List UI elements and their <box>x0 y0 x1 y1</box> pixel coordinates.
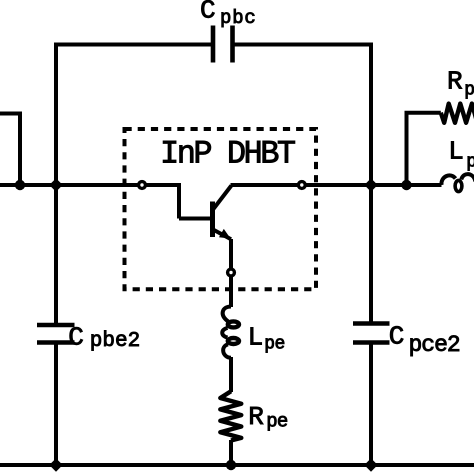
wire: Lpe to Rpe <box>229 357 233 392</box>
wire: left vertical branch upper segment (x=56) <box>54 43 58 326</box>
wire: top bus from left vertical to right vertical (left half) <box>56 43 212 47</box>
svg-text:R: R <box>248 402 264 432</box>
svg-text:L: L <box>448 137 464 167</box>
capacitor Cpce2 (plates) <box>353 324 390 343</box>
svg-text:pe: pe <box>266 411 288 433</box>
node: collector port open circle <box>298 182 305 189</box>
wire: collector to right (to collector port circle) <box>231 183 298 187</box>
inductor Lpe (vertical coil) <box>222 307 239 358</box>
wire: Rp stub vertical (x=406.5) <box>405 113 409 185</box>
label Lpe <box>248 322 285 354</box>
wire: top bus right half <box>235 43 372 47</box>
wire: input stub top-left (horizontal at y=113.5) <box>0 112 20 116</box>
svg-text:p: p <box>464 81 474 101</box>
svg-text:pbc: pbc <box>220 7 257 29</box>
junction at (406.5,185) <box>401 180 411 190</box>
label Lp <box>448 137 474 173</box>
wire: emitter down from transistor to emitter port <box>229 239 233 269</box>
svg-text:InP DHBT: InP DHBT <box>160 135 295 172</box>
svg-text:pe: pe <box>264 335 284 355</box>
wire: bottom bus (ground rail) <box>0 463 474 467</box>
label Cpbe2 <box>68 322 140 353</box>
svg-text:R: R <box>447 66 463 96</box>
transistor Q1 emitter arrowhead <box>219 229 231 239</box>
wire: Rp stub horizontal <box>405 111 441 115</box>
wire: base bus from left edge to base node circle <box>0 183 138 187</box>
wire: base bend down <box>177 183 181 219</box>
wire: right bus segment to Lp <box>371 183 442 187</box>
resistor Rp (zigzag, cut at right edge) <box>441 104 474 123</box>
wire: emitter port down to Lpe <box>229 277 233 307</box>
resistor Rpe (vertical zigzag) <box>220 391 241 440</box>
svg-text:pbe2: pbe2 <box>90 330 140 353</box>
junction at (56,465) <box>49 458 62 471</box>
junction at (231,465) <box>226 460 236 470</box>
svg-text:C: C <box>68 322 84 352</box>
transistor Q1 emitter diagonal <box>213 230 231 240</box>
wire: right vertical bus lower segment <box>369 343 373 466</box>
node: emitter port open circle <box>228 269 235 276</box>
dashed box: InP DHBT intrinsic device <box>125 129 317 289</box>
wire: Rpe to bottom bus <box>229 440 233 465</box>
label Rp <box>447 66 474 100</box>
inductor Lp (horizontal coil, cut at right edge) <box>441 174 474 192</box>
capacitor Cpbc (plates) <box>213 26 233 63</box>
label Rpe <box>248 402 288 433</box>
svg-text:C: C <box>200 0 216 26</box>
wire: right vertical bus upper segment (x=371) <box>369 43 373 324</box>
wire: base node to bend <box>147 183 180 187</box>
wire: left vertical branch lower segment <box>54 343 58 466</box>
transistor Q1 base bar <box>210 202 215 238</box>
svg-text:pce2: pce2 <box>409 332 460 358</box>
svg-text:L: L <box>248 322 264 352</box>
junction diamond at (56,185) <box>49 178 62 191</box>
capacitor Cpbe2 (plates) <box>37 325 75 343</box>
svg-text:C: C <box>389 322 405 352</box>
transistor Q1 collector diagonal <box>213 186 231 210</box>
junction at (371,465) <box>364 458 377 471</box>
wire: base lead into transistor <box>179 217 211 221</box>
wire: collector port to right vertical <box>306 183 371 187</box>
svg-text:p: p <box>466 153 474 173</box>
node: base port open circle <box>139 182 146 189</box>
label Cpbc <box>200 0 257 29</box>
junction diamond at (371,185) <box>364 178 377 191</box>
label Cpce2 <box>389 322 460 359</box>
junction at (20,185) <box>15 180 25 190</box>
wire: input stub vertical (x=20) <box>18 112 22 186</box>
